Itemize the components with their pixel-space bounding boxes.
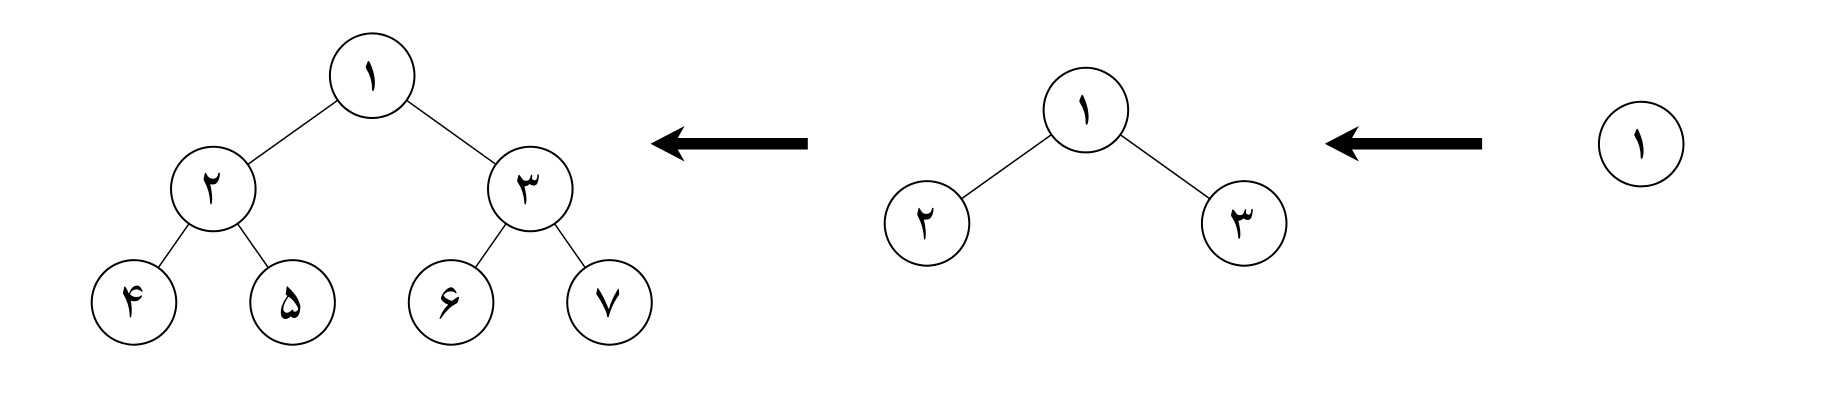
node 1 label (single node) (1634, 129, 1643, 159)
node 3 circle (big tree) (488, 147, 573, 232)
node 3 label (mid tree) (1231, 209, 1253, 239)
edge 1-2 (big tree) (213, 76, 372, 189)
node 6 label (big tree) (440, 287, 460, 319)
arrow (mid tree to big tree) (651, 126, 808, 162)
node 5 label (big tree) (281, 286, 301, 319)
node 2 label (big tree) (204, 173, 220, 205)
node 6 circle (big tree) (409, 260, 494, 345)
node 1 label (mid tree) (1079, 95, 1088, 125)
node 1 circle (mid tree root) (1044, 68, 1129, 153)
node 2 circle (big tree) (171, 147, 256, 232)
edge 2-5 (big tree) (213, 189, 292, 302)
arrow (single node to mid tree) (1325, 126, 1482, 162)
node 2 circle (mid tree) (885, 181, 970, 266)
node 7 label (big tree) (596, 288, 619, 317)
node 1 label (big tree) (366, 61, 375, 91)
edge 1-2 (mid tree) (927, 110, 1086, 223)
node 1 circle (big tree root) (330, 33, 415, 118)
node 3 circle (mid tree) (1202, 181, 1287, 266)
node 3 label (big tree) (517, 174, 539, 204)
edge 3-7 (big tree) (530, 189, 609, 302)
node 1 circle (single node) (1599, 102, 1684, 187)
node 5 circle (big tree) (250, 260, 335, 345)
node 2 label (mid tree) (917, 208, 933, 240)
node 4 label (big tree) (123, 286, 143, 318)
edge 1-3 (mid tree) (1086, 110, 1244, 223)
edge 3-6 (big tree) (451, 189, 530, 302)
edge 1-3 (big tree) (372, 76, 530, 189)
edge 2-4 (big tree) (134, 189, 213, 302)
node 4 circle (big tree) (92, 260, 177, 345)
node 7 circle (big tree) (567, 260, 652, 345)
